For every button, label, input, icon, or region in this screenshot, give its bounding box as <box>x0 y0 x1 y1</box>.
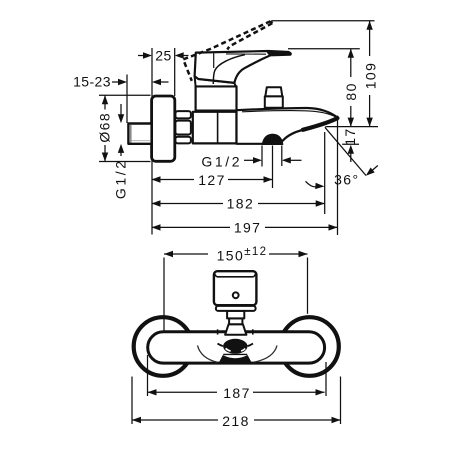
spout <box>237 108 338 144</box>
svg-text:187: 187 <box>223 385 251 401</box>
extension line: escutcheon right edge <box>340 377 342 425</box>
extension lines: aerator thread <box>261 146 263 167</box>
cartridge neck step 1 <box>227 311 244 319</box>
handle (front view) <box>214 271 257 305</box>
escutcheon left (front view) <box>134 317 193 376</box>
dimension 182 <box>152 196 325 212</box>
aerator (front view, black) <box>223 339 247 354</box>
svg-text:15-23: 15-23 <box>73 74 111 90</box>
aerator seam line <box>223 353 247 355</box>
dimension G1/2 (aerator thread) <box>201 153 301 169</box>
S-union pipe nipple <box>128 124 151 144</box>
extension line: aerator plane <box>342 143 359 145</box>
handle pin hole <box>233 292 239 298</box>
lever handle (rest position) <box>195 51 291 84</box>
dimension 25 <box>138 47 189 63</box>
extension line: spout tip <box>337 116 339 235</box>
extension line: handle top level <box>288 48 360 50</box>
cartridge neck flare <box>225 324 246 335</box>
dimension 109 <box>362 21 378 127</box>
union block inner edge <box>217 113 219 143</box>
dimension 187 <box>148 385 325 401</box>
escutcheon (wall rosette, side view) <box>152 96 175 161</box>
svg-text:127: 127 <box>198 172 226 188</box>
angle arrow on vertical line <box>306 181 325 189</box>
extension line: spout outlet level <box>325 126 378 128</box>
dimension Ø68 <box>97 95 151 161</box>
svg-text:197: 197 <box>234 219 262 235</box>
handle collar <box>216 306 256 311</box>
svg-text:218: 218 <box>222 413 250 429</box>
spout inner edge line <box>242 111 336 118</box>
svg-text:G1/2: G1/2 <box>201 153 242 169</box>
mixer body (front view) <box>148 332 325 363</box>
extension line: body right end <box>325 362 327 396</box>
spout tip side ticks <box>218 344 223 347</box>
extension line: body left end <box>147 355 149 396</box>
svg-text:150: 150 <box>217 248 245 264</box>
aerator outlet (side view) <box>262 134 283 145</box>
svg-text:Ø68: Ø68 <box>97 112 113 143</box>
svg-text:25: 25 <box>155 47 172 63</box>
extension line: raised lever top level <box>272 20 375 22</box>
svg-text:109: 109 <box>362 62 378 90</box>
handle base skirt <box>195 76 236 86</box>
extension line: spout outlet vertical (182 ref) <box>324 132 326 214</box>
dimension 17 <box>342 127 358 162</box>
lever handle raised position (dashed) <box>183 21 272 81</box>
body contour arc left <box>198 346 218 363</box>
shower hose outlet <box>265 87 283 108</box>
dimension 15-23 <box>73 74 168 90</box>
angle arrow on slanted line <box>366 166 378 176</box>
dimension 218 <box>132 413 341 429</box>
valve body upper block <box>196 86 237 110</box>
escutcheon right (front view) <box>280 317 339 376</box>
extension line: left union centre <box>163 258 165 332</box>
dimension 197 <box>152 219 338 235</box>
spout tip thick edge <box>303 118 338 130</box>
svg-text:G1/2: G1/2 <box>113 158 129 199</box>
dimension 150 plus-minus 12 <box>164 245 308 264</box>
extension line: escutcheon outer face <box>174 48 176 96</box>
body contour arc right <box>254 346 278 363</box>
svg-text:17: 17 <box>342 127 358 145</box>
aerator lower bowl (black) <box>219 355 253 363</box>
body section tick left <box>217 329 219 334</box>
cartridge neck step 2 <box>229 318 242 324</box>
extension line: aerator centre <box>272 146 274 189</box>
svg-text:80: 80 <box>343 82 359 100</box>
dimension 80 <box>343 49 359 127</box>
svg-text:±12: ±12 <box>244 246 267 258</box>
dimension G1/2 left (nipple thread) <box>113 104 129 199</box>
dimension 127 <box>152 172 273 188</box>
extension line: wall plane <box>151 48 153 235</box>
angle line 36deg <box>325 127 366 175</box>
extension line: escutcheon left edge <box>131 377 133 425</box>
union nut <box>175 111 191 143</box>
svg-text:182: 182 <box>227 196 255 212</box>
extension line: pipe end <box>126 75 128 124</box>
valve body lower block <box>193 112 237 144</box>
body section tick right <box>252 329 254 334</box>
extension line: right union centre <box>307 258 309 314</box>
handle grip black tip <box>267 51 291 55</box>
